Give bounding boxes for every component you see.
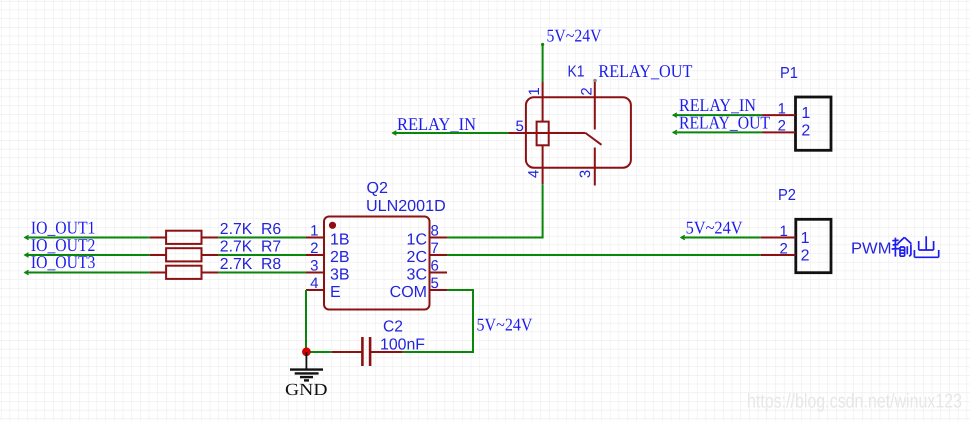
net label IO_OUT1 (31, 217, 96, 237)
svg-text:4: 4 (310, 275, 318, 292)
svg-text:1: 1 (801, 105, 810, 122)
net label IO_OUT2 (31, 235, 96, 255)
ground GND symbol (290, 352, 323, 380)
label 2.7K R7 (220, 239, 281, 256)
svg-text:K1: K1 (568, 64, 585, 81)
svg-text:5: 5 (431, 275, 439, 292)
resistor R6 (150, 231, 219, 244)
connector P1 body (796, 97, 832, 150)
svg-text:RELAY_OUT: RELAY_OUT (598, 61, 692, 81)
svg-text:IO_OUT3: IO_OUT3 (31, 252, 96, 272)
junction dot (302, 347, 311, 356)
svg-text:2: 2 (778, 118, 786, 135)
IC pin-1 dot (329, 222, 336, 229)
wire ULN pin4 E to ground (306, 290, 332, 352)
svg-text:PWM: PWM (851, 240, 892, 257)
connector P1 designator (780, 65, 798, 82)
resistor R8 (150, 266, 219, 279)
text PWM output (Chinese) (851, 236, 939, 257)
IC U2 body (324, 217, 430, 310)
net label RELAY_OUT (relay) (598, 61, 692, 81)
wire IO_OUT2 (25, 253, 150, 257)
P2 pin 2 (761, 240, 810, 264)
svg-text:1C: 1C (407, 231, 427, 248)
label 2.7K R8 (220, 256, 281, 273)
net label 5V~24V (COM net) (477, 315, 533, 335)
svg-text:RELAY_OUT: RELAY_OUT (679, 113, 770, 133)
svg-text:4: 4 (526, 170, 543, 178)
svg-text:2: 2 (801, 248, 810, 265)
watermark (747, 391, 962, 413)
relay coil (537, 122, 549, 146)
wire 5V~24V to P2 pin1 (681, 235, 761, 239)
relay pin number 3 (577, 170, 594, 178)
svg-text:5V~24V: 5V~24V (547, 26, 602, 46)
svg-text:ULN2001D: ULN2001D (366, 198, 446, 215)
svg-text:2: 2 (779, 240, 787, 257)
wire relay pin 4 to ULN pin 8 (447, 184, 543, 237)
connector P2 designator (778, 187, 796, 204)
GND label (285, 380, 328, 399)
svg-text:3C: 3C (407, 266, 427, 283)
svg-text:2B: 2B (330, 249, 350, 266)
svg-text:3: 3 (310, 258, 318, 275)
svg-text:2.7K R7: 2.7K R7 (220, 239, 281, 256)
relay pin number 5 (515, 118, 523, 135)
relay pin 1 (542, 82, 544, 122)
svg-text:2.7K R8: 2.7K R8 (220, 256, 281, 273)
relay pin number 4 (526, 170, 543, 178)
wire IO_OUT3 (25, 270, 150, 274)
P1 pin 2 (762, 118, 810, 140)
svg-text:1: 1 (310, 223, 318, 240)
svg-text:E: E (330, 284, 341, 301)
IC value ULN2001D (366, 198, 446, 215)
svg-text:GND: GND (285, 380, 328, 399)
P1 pin 1 (762, 100, 810, 122)
svg-text:2: 2 (579, 87, 596, 95)
svg-text:C2: C2 (383, 319, 403, 336)
net label RELAY_IN (relay) (397, 114, 476, 134)
label 2.7K R6 (220, 221, 281, 238)
svg-text:1: 1 (778, 100, 786, 117)
label C2 (383, 319, 403, 336)
net label RELAY_IN (P1) (679, 95, 756, 115)
svg-text:5V~24V: 5V~24V (477, 315, 533, 335)
svg-text:COM: COM (390, 284, 427, 301)
wire R6 to ULN pin 1 (218, 237, 306, 239)
P2 pin 1 (761, 223, 810, 247)
IC pin 3 (3B) (306, 258, 350, 284)
wire IO_OUT1 (25, 235, 150, 239)
wire R8 to ULN pin 3 (218, 272, 306, 274)
relay pin 2 (593, 79, 597, 130)
connector P2 body (796, 219, 831, 272)
svg-text:1: 1 (526, 87, 543, 95)
svg-text:100nF: 100nF (380, 337, 425, 354)
relay K1 designator (568, 64, 585, 81)
svg-text:2.7K R6: 2.7K R6 (220, 221, 281, 238)
svg-text:7: 7 (431, 240, 439, 257)
net label 5V~24V (P2) (686, 217, 743, 237)
IC pin 7 (2C) (407, 240, 447, 266)
svg-text:1: 1 (801, 230, 810, 247)
relay pin number 1 (526, 87, 543, 95)
svg-text:P1: P1 (780, 65, 798, 82)
value 100nF (380, 337, 425, 354)
wire 5V~24V to relay pin 1 (541, 43, 544, 82)
net label IO_OUT3 (31, 252, 96, 272)
svg-text:P2: P2 (778, 187, 796, 204)
relay pin 3 (594, 148, 596, 186)
svg-text:3B: 3B (330, 266, 350, 283)
svg-text:1B: 1B (330, 231, 350, 248)
svg-text:6: 6 (431, 258, 439, 275)
IC pin 6 (3C) (407, 258, 447, 284)
wire R7 to ULN pin 2 (218, 254, 306, 256)
svg-text:5V~24V: 5V~24V (686, 217, 743, 237)
relay pin 5 (508, 132, 585, 134)
IC pin 2 (2B) (306, 240, 350, 266)
relay switch arm (586, 133, 602, 145)
svg-text:5: 5 (515, 118, 523, 135)
relay pin 4 (542, 145, 544, 184)
relay pin number 2 (579, 87, 596, 95)
wire RELAY_IN to P1 pin1 (673, 113, 762, 117)
svg-text:8: 8 (431, 223, 439, 240)
svg-text:2C: 2C (407, 249, 427, 266)
capacitor C2 (332, 337, 403, 366)
power port 5V~24V top (547, 26, 602, 46)
wire ULN pin7 to P2 pin 2 (447, 254, 761, 256)
net label RELAY_OUT (P1) (679, 113, 770, 133)
svg-text:2: 2 (801, 123, 810, 140)
IC pin 5 (COM) (390, 275, 447, 301)
wire RELAY_OUT to P1 pin2 (673, 130, 762, 134)
relay K1 body (526, 97, 631, 167)
svg-text:1: 1 (779, 223, 787, 240)
op IC Q2 designator (367, 180, 389, 197)
IC pin 8 (1C) (407, 223, 447, 249)
svg-text:RELAY_IN: RELAY_IN (397, 114, 476, 134)
svg-text:2: 2 (310, 240, 318, 257)
svg-text:https://blog.csdn.net/winux123: https://blog.csdn.net/winux123 (747, 391, 962, 413)
IC pin 4 (E) (306, 275, 341, 301)
svg-text:3: 3 (577, 170, 594, 178)
wire RELAY_IN to relay pin 5 (393, 131, 509, 135)
resistor R7 (150, 248, 219, 261)
IC pin 1 (1B) (306, 223, 350, 249)
wire ULN COM to 5V~24V net (403, 290, 473, 352)
svg-text:Q2: Q2 (367, 180, 389, 197)
